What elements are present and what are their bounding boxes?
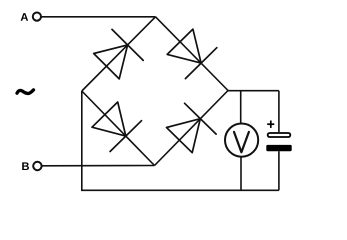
wire bridge leg upper-right (T to R) [156, 17, 229, 91]
voltmeter M1 body [225, 124, 258, 157]
wire capacitor branch bottom [278, 151, 280, 190]
terminal B [33, 162, 41, 170]
wire voltmeter branch top [240, 91, 242, 124]
capacitor C1 top plate (positive) [268, 133, 291, 137]
wire negative rail bottom horizontal [81, 189, 279, 191]
wire A terminal to bridge top [41, 16, 155, 18]
diode D3 (lower-left leg, apex toward bottom node) [92, 102, 142, 152]
capacitor C1 polarity + [267, 121, 274, 128]
node B label [22, 162, 29, 170]
wire negative rail left vertical (L down to bottom rail) [81, 91, 83, 190]
wire B terminal to bridge bottom [42, 165, 155, 167]
wire voltmeter branch bottom [240, 157, 242, 190]
capacitor C1 bottom plate (negative) [266, 145, 291, 151]
node A label [21, 13, 28, 21]
diode D2 (upper-right leg, apex toward right node) [167, 29, 217, 79]
wire bridge leg lower-left (L to Bo) [82, 91, 155, 166]
wire bridge leg lower-right (Bo to R) [155, 91, 229, 166]
diode D1 (upper-left leg, apex toward top node) [94, 29, 144, 79]
diode D4 (lower-right leg, apex toward right node) [167, 103, 217, 152]
voltmeter V marking [234, 132, 249, 152]
AC source symbol ~ [17, 90, 34, 94]
wire capacitor branch top [278, 91, 280, 132]
terminal A [33, 13, 41, 21]
wire bridge leg upper-left (L to T) [82, 17, 156, 91]
wire positive rail horizontal (R to capacitor branch) [228, 90, 279, 92]
